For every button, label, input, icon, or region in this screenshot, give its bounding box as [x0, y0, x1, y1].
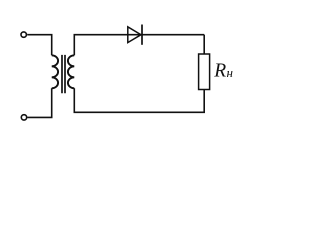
transformer T1 primary winding — [52, 55, 58, 88]
wire top-left rail to primary — [27, 35, 52, 56]
svg-text:н: н — [227, 65, 233, 80]
terminal top-left input — [21, 32, 26, 37]
resistor Rn body — [199, 54, 210, 90]
transformer T1 core — [62, 55, 65, 93]
wire top-right corner down to resistor — [203, 35, 205, 54]
svg-text:R: R — [213, 60, 226, 81]
transformer T1 secondary winding — [68, 55, 74, 88]
terminal bottom-left input — [21, 115, 26, 120]
wire through diode on top rail — [128, 34, 204, 36]
diode VD1 triangle — [128, 27, 141, 43]
wire secondary top to diode anode — [74, 35, 128, 56]
diode VD1 cathode bar — [141, 25, 143, 45]
wire bottom-left rail to primary — [27, 88, 51, 117]
wire resistor bottom to bottom rail — [74, 88, 204, 112]
